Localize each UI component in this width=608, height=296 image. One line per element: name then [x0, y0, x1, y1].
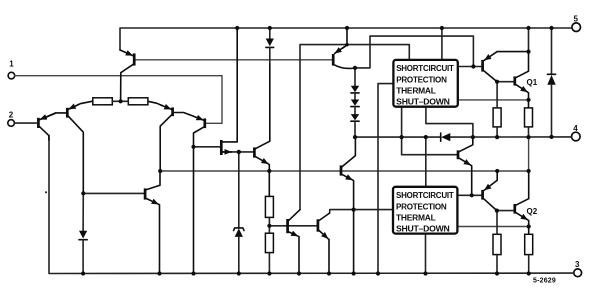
wire pin2 to input transistor — [15, 122, 37, 124]
pin 4 terminal — [572, 132, 581, 141]
transistor T8 VAS input NPN — [221, 28, 237, 155]
svg-text:THERMAL: THERMAL — [396, 212, 436, 222]
wire T8 base — [194, 146, 220, 148]
svg-text:PROTECTION: PROTECTION — [396, 201, 447, 211]
svg-text:3: 3 — [575, 260, 580, 269]
wire VAS collector to protection box top — [300, 45, 409, 210]
series diode bias to output — [441, 133, 451, 141]
wire box2 bottom to ground — [425, 234, 427, 274]
label Q2 — [527, 207, 538, 216]
wire Q2 emitter resistor to rail — [528, 255, 530, 274]
transistor T10 VAS NPN — [288, 210, 300, 274]
svg-text:Q1: Q1 — [527, 78, 538, 87]
svg-text:Q2: Q2 — [527, 207, 538, 216]
svg-text:THERMAL: THERMAL — [396, 85, 436, 95]
svg-text:5: 5 — [574, 15, 579, 24]
junction dots circuit nodes — [81, 43, 553, 229]
wire T10 T11 common base — [270, 225, 317, 227]
wire Q2 base — [497, 210, 514, 212]
protection box channel 2 — [393, 187, 457, 234]
transistor diff pair left PNP — [43, 101, 92, 193]
diode left compensation — [79, 193, 87, 273]
junction dots bottom rail — [81, 271, 531, 275]
zener diode center — [234, 152, 244, 274]
pin 2 terminal — [8, 120, 15, 127]
pin 1 label — [9, 60, 14, 69]
wire bias node to box2 top — [425, 137, 427, 186]
wire box1 right to driver base — [459, 66, 482, 68]
diode bias stack 3 — [351, 107, 359, 138]
transistor input follower pin1 PNP — [189, 115, 205, 274]
resistor Q1 emitter — [525, 108, 533, 127]
transistor T5 NPN — [458, 137, 473, 195]
transistor input follower pin2 PNP — [38, 113, 55, 140]
wire Q2 base resistor to rail — [496, 255, 498, 274]
wire bias top loop to driver base — [355, 36, 473, 68]
resistor Q2 base bleed — [493, 234, 501, 254]
svg-text:1: 1 — [9, 60, 14, 69]
svg-text:SHUT–DOWN: SHUT–DOWN — [396, 97, 450, 107]
output catch diode — [547, 28, 555, 137]
wire box1 right to Q1 emitter sense — [459, 99, 529, 101]
transistor mirror left PNP — [120, 50, 134, 101]
resistor T9 emitter lower — [265, 233, 273, 252]
wire T8 emitter to T9 base — [223, 151, 253, 153]
wire box2 right to Q2 emitter sense — [459, 226, 529, 228]
transistor driver upper PNP — [483, 52, 529, 82]
resistor diff tail left — [93, 98, 113, 105]
wire left mirror base — [83, 192, 143, 194]
protection box channel 1 — [393, 60, 457, 107]
wire rail to Q1 collector node — [528, 28, 530, 52]
wire T11 collector to box2 left — [330, 210, 393, 213]
wire resistor column T9 emitter — [268, 217, 270, 225]
svg-text:2: 2 — [9, 111, 14, 120]
transistor T11 NPN — [318, 213, 330, 274]
pin 5 terminal — [572, 23, 581, 32]
stray print speck — [45, 191, 47, 193]
resistor diff tail right — [128, 98, 148, 105]
svg-text:SHUT–DOWN: SHUT–DOWN — [396, 224, 450, 234]
pin 1 terminal — [8, 72, 15, 79]
wire mirror base line — [136, 59, 332, 61]
transistor T6 feedback NPN — [341, 137, 355, 273]
label Q1 — [527, 78, 538, 87]
wire Q1 emitter resistor to pin4 rail — [528, 127, 530, 137]
resistor T9 emitter upper — [265, 196, 273, 217]
wire bias bottom to series diode — [355, 136, 441, 138]
svg-text:SHORTCIRCUIT: SHORTCIRCUIT — [396, 63, 454, 73]
wire ground bottom rail — [49, 135, 574, 273]
diode bias stack 2 — [351, 93, 359, 107]
transistor left mirror NPN — [145, 171, 160, 274]
pin 4 label — [573, 124, 578, 133]
pin 3 label — [575, 260, 580, 269]
wire rail to box1 top — [441, 28, 443, 59]
wire box1 bottom jog to output node — [426, 107, 473, 137]
svg-text:5-2629: 5-2629 — [533, 278, 556, 285]
resistor Q2 emitter — [525, 234, 533, 254]
wire Q1 base resistor to pin4 rail — [496, 127, 498, 137]
wire feedback line — [160, 137, 528, 171]
pin 5 label — [574, 15, 579, 24]
wire Q1 base resistor column — [496, 82, 498, 108]
transistor mirror right PNP diode-connected — [333, 28, 355, 68]
pin 2 label — [9, 111, 14, 120]
svg-text:PROTECTION: PROTECTION — [396, 74, 447, 84]
transistor Q1 — [515, 52, 529, 108]
transistor Q2 — [515, 171, 529, 234]
wire series diode to pin 4 — [450, 136, 571, 138]
diode bias stack 1 — [351, 68, 359, 93]
wire box2 right to T12 base — [459, 194, 482, 196]
transistor driver lower PNP — [483, 171, 498, 211]
wire V+ top rail — [120, 28, 572, 50]
wire box1 left riser — [378, 84, 393, 274]
wire pin1 to input transistor base — [15, 76, 222, 124]
wire Q1 base — [497, 81, 513, 83]
wire resistor T9 lower to ground — [268, 226, 270, 233]
svg-text:4: 4 — [573, 124, 578, 133]
diode rail to mirror base — [266, 28, 274, 63]
figure number 5-2629 — [533, 278, 556, 285]
wire Q2 base resistor column — [496, 211, 498, 235]
wire box1 bottom to T5 base — [402, 107, 457, 154]
svg-text:SHORTCIRCUIT: SHORTCIRCUIT — [396, 190, 454, 200]
wire between tail resistors — [112, 100, 128, 102]
transistor T9 NPN — [254, 63, 269, 196]
transistor diff pair right PNP — [148, 101, 190, 171]
wire resistor T9 lower bottom to rail — [268, 253, 270, 274]
resistor Q1 base bleed — [493, 108, 501, 127]
pin 3 terminal — [574, 269, 582, 277]
junction dots top rail — [235, 26, 554, 30]
